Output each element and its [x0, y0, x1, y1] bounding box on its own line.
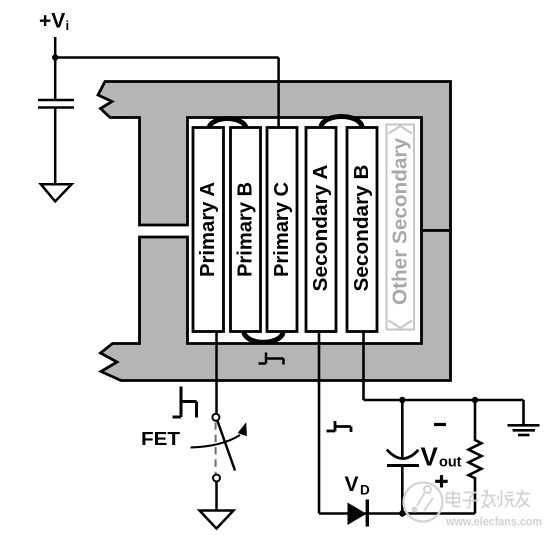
svg-text:Secondary A: Secondary A — [310, 165, 332, 292]
svg-text:+V: +V — [39, 10, 65, 33]
svg-text:www.elecfans.com: www.elecfans.com — [445, 515, 542, 529]
svg-text:Primary A: Primary A — [197, 182, 219, 277]
svg-text:Other Secondary: Other Secondary — [390, 137, 412, 305]
svg-text:FET: FET — [141, 429, 180, 449]
svg-text:out: out — [439, 455, 462, 471]
svg-text:V: V — [421, 442, 439, 472]
svg-text:D: D — [360, 483, 370, 498]
svg-text:Secondary B: Secondary B — [351, 165, 373, 292]
svg-text:i: i — [66, 18, 70, 33]
svg-text:Primary B: Primary B — [235, 182, 257, 277]
svg-text:Primary C: Primary C — [271, 182, 293, 277]
svg-text:V: V — [345, 473, 359, 496]
